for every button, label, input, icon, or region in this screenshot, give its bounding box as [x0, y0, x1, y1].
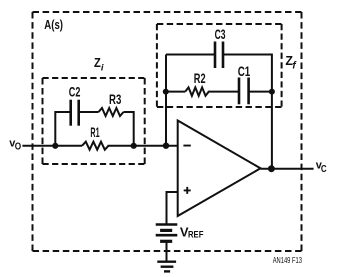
junction node minus input [163, 143, 169, 149]
wire Zf node to R2 [166, 91, 185, 93]
op-amp U1 [178, 121, 261, 217]
junction node output [268, 165, 275, 172]
wire Zf left vertical [165, 55, 167, 146]
svg-text:A(s): A(s) [44, 17, 63, 32]
svg-text:i: i [101, 63, 104, 74]
wire R2 to C1 [208, 91, 239, 93]
junction node Zi left [52, 143, 58, 149]
capacitor C1 [239, 78, 249, 105]
wire vO input to R1 [22, 145, 82, 147]
svg-text:R1: R1 [90, 124, 99, 140]
ground [157, 262, 176, 272]
junction node Zf left [163, 89, 169, 95]
battery VREF [156, 225, 178, 242]
wire Zi right branch down [124, 112, 134, 146]
wire C3 branch left [166, 54, 215, 56]
junction node Zf right [269, 89, 275, 95]
svg-text:R2: R2 [194, 70, 206, 86]
dashed box Zi [43, 78, 145, 164]
wire Zi left branch up [55, 112, 70, 146]
resistor R3 [99, 108, 124, 116]
junction node Zi right [131, 143, 137, 149]
wire Zf right vertical to output [271, 92, 273, 169]
wire op-amp plus input [167, 192, 178, 225]
capacitor C2 [71, 100, 79, 126]
resistor R2 [185, 87, 209, 95]
svg-text:C: C [321, 164, 327, 175]
svg-text:C1: C1 [238, 63, 251, 79]
svg-text:R3: R3 [109, 91, 121, 107]
svg-text:C3: C3 [215, 26, 226, 42]
dashed box A(s) [33, 12, 302, 251]
svg-text:AN149 F13: AN149 F13 [273, 255, 302, 265]
resistor R1 [82, 142, 108, 150]
svg-text:REF: REF [188, 230, 204, 241]
wire C2 to R3 [79, 111, 99, 113]
svg-text:C2: C2 [69, 84, 81, 100]
op-amp minus pin [183, 145, 190, 147]
wire R1 to op-amp minus input [108, 145, 178, 147]
wire C1 to Zf right node [249, 91, 272, 93]
capacitor C3 [215, 42, 223, 69]
svg-text:O: O [15, 141, 21, 153]
svg-text:f: f [292, 60, 297, 71]
wire battery to ground [166, 242, 168, 262]
op-amp plus pin [184, 187, 191, 194]
dashed box Zf [157, 24, 282, 107]
wire C3 branch right [223, 55, 272, 92]
wire output to vC [261, 168, 314, 170]
